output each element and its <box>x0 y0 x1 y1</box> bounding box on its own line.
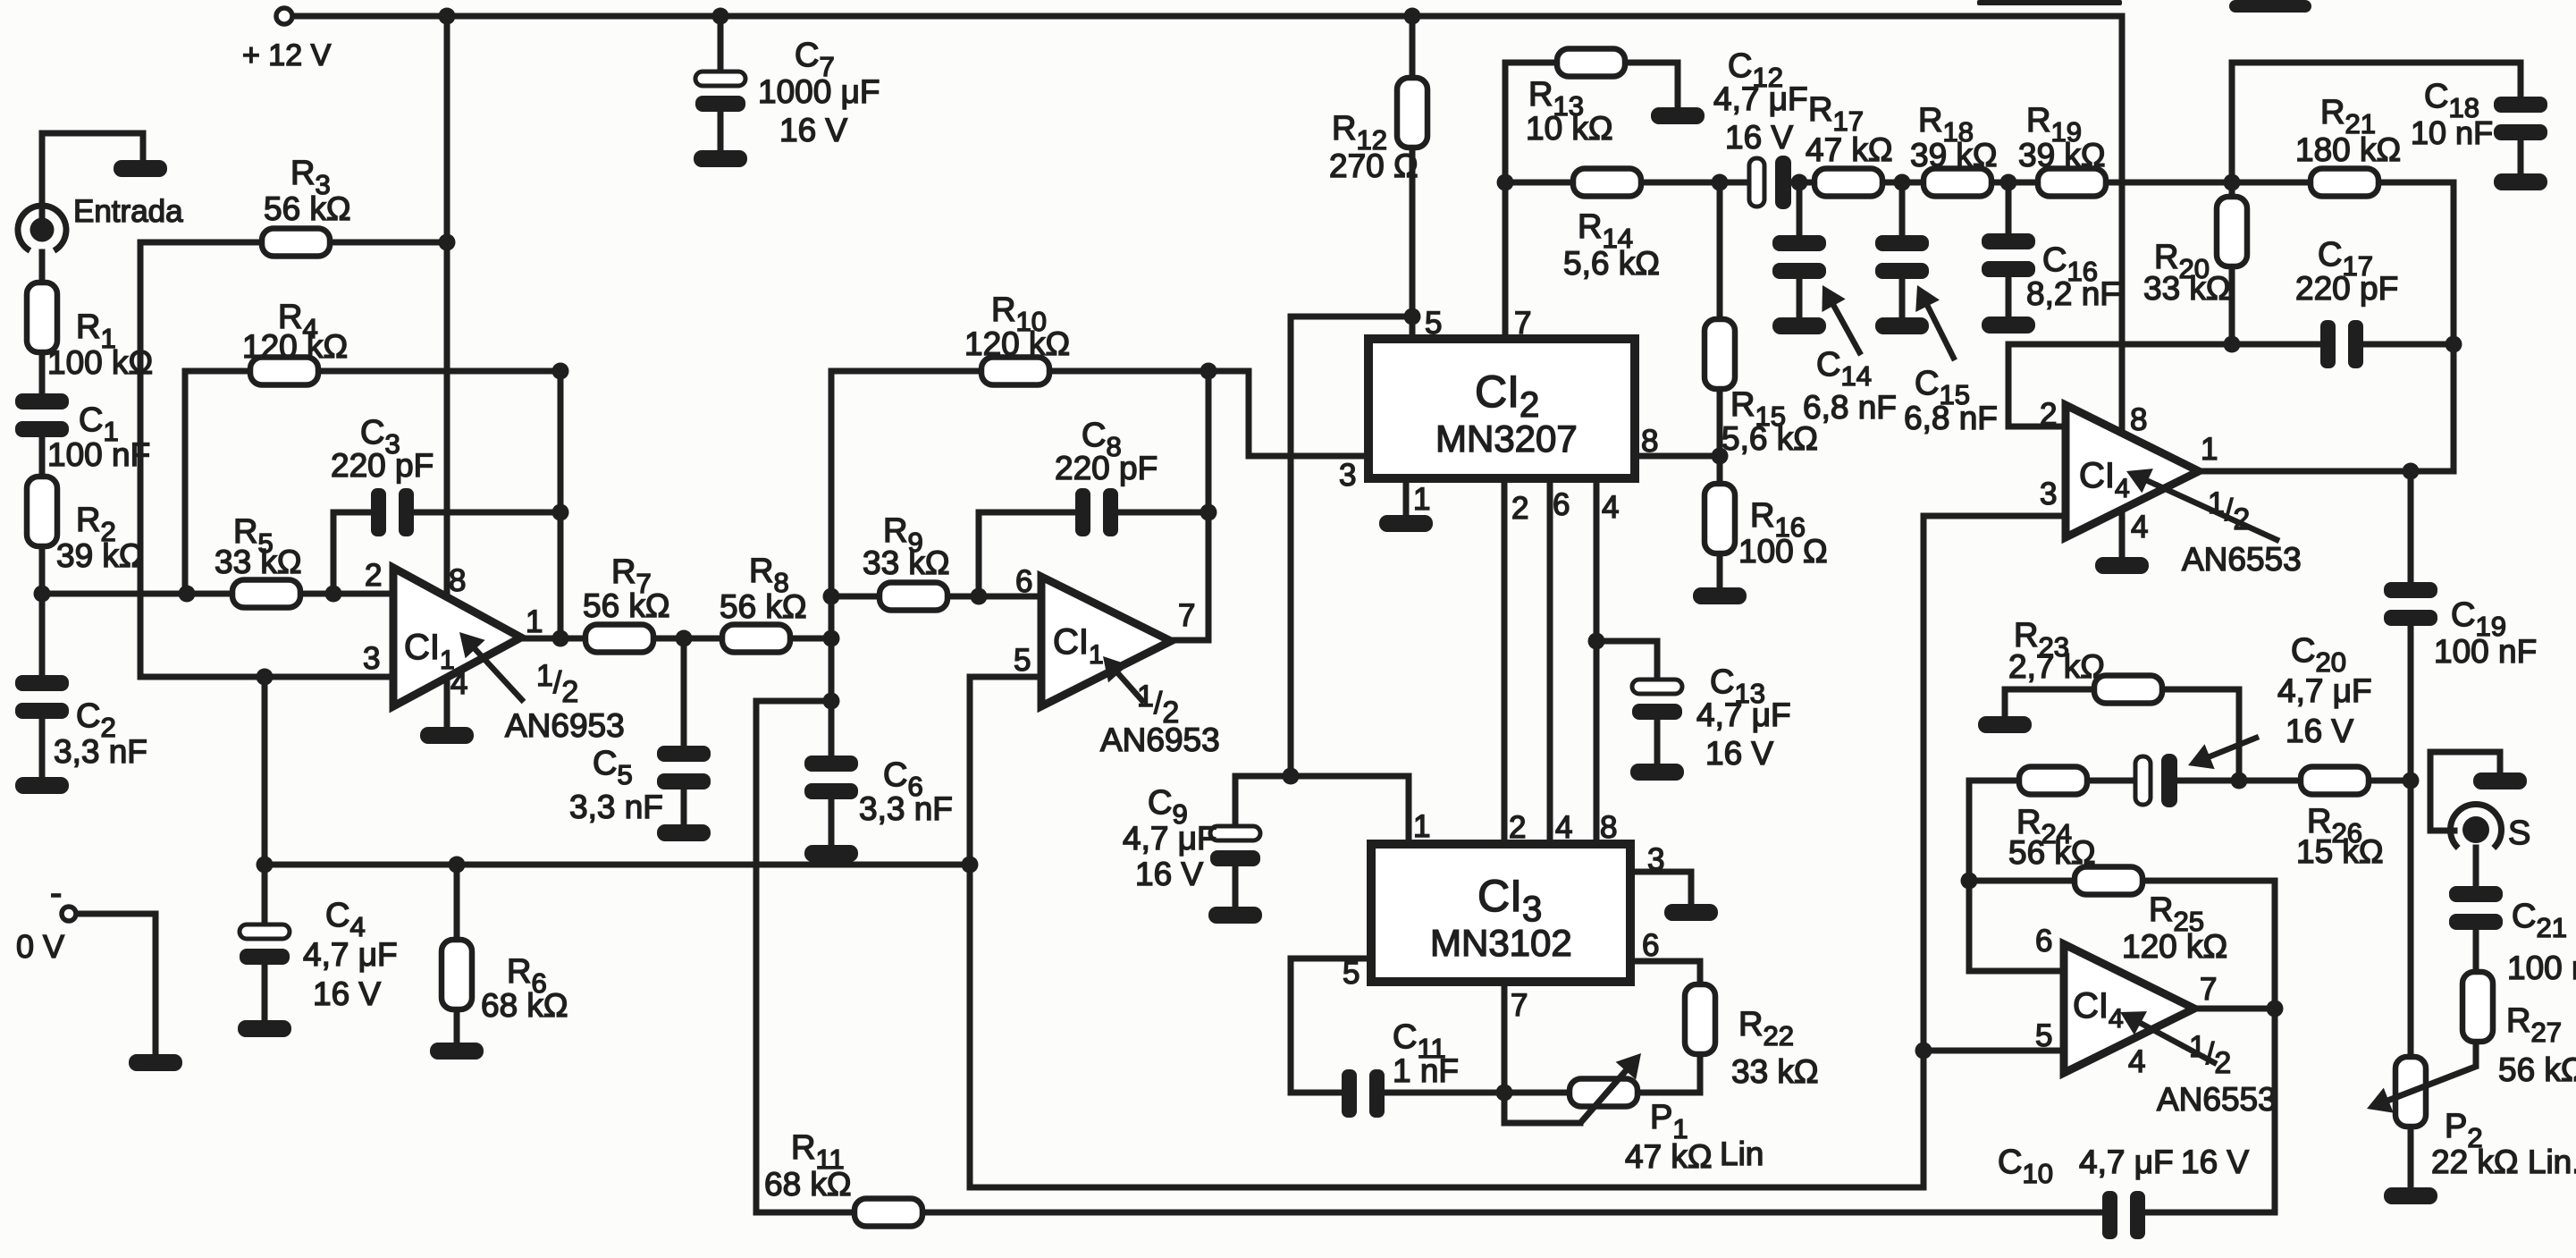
svg-text:22 kΩ Lin.: 22 kΩ Lin. <box>2431 1144 2576 1180</box>
svg-text:39 kΩ: 39 kΩ <box>2018 137 2106 173</box>
svg-text:3: 3 <box>1647 842 1664 877</box>
svg-text:100 nF: 100 nF <box>47 436 150 473</box>
svg-text:4: 4 <box>2128 1044 2145 1079</box>
svg-text:8: 8 <box>449 563 466 598</box>
svg-text:120 kΩ: 120 kΩ <box>242 328 348 365</box>
svg-text:120 kΩ: 120 kΩ <box>964 325 1070 362</box>
svg-text:180 kΩ: 180 kΩ <box>2295 131 2401 168</box>
svg-text:MN3207: MN3207 <box>1435 418 1578 460</box>
svg-text:8: 8 <box>1600 810 1617 845</box>
svg-text:1: 1 <box>1413 482 1430 517</box>
svg-text:39 kΩ: 39 kΩ <box>56 537 144 574</box>
svg-text:1 nF: 1 nF <box>1393 1052 1459 1089</box>
svg-text:47 kΩ: 47 kΩ <box>1806 131 1893 168</box>
svg-text:120 kΩ: 120 kΩ <box>2122 928 2227 965</box>
svg-text:10 nF: 10 nF <box>2411 114 2493 151</box>
svg-text:68 kΩ: 68 kΩ <box>481 987 568 1024</box>
svg-text:1: 1 <box>1413 809 1430 844</box>
svg-text:3: 3 <box>2040 477 2057 511</box>
svg-text:Lin: Lin <box>1720 1136 1764 1172</box>
svg-text:10 kΩ: 10 kΩ <box>1526 110 1613 147</box>
svg-text:56 kΩ: 56 kΩ <box>583 587 670 624</box>
svg-text:15 kΩ: 15 kΩ <box>2296 833 2384 870</box>
svg-text:4: 4 <box>1555 810 1572 845</box>
svg-text:4,7 μF: 4,7 μF <box>2277 672 2372 709</box>
svg-text:220 pF: 220 pF <box>1055 450 1158 486</box>
svg-text:270 Ω: 270 Ω <box>1329 148 1418 184</box>
svg-text:3,3 nF: 3,3 nF <box>569 789 663 825</box>
svg-text:100 nF: 100 nF <box>2434 633 2537 670</box>
svg-text:5: 5 <box>1014 643 1031 678</box>
svg-text:56 kΩ: 56 kΩ <box>2498 1051 2576 1088</box>
svg-text:6: 6 <box>1553 487 1570 522</box>
svg-text:33 kΩ: 33 kΩ <box>1731 1053 1819 1090</box>
svg-text:1: 1 <box>526 604 543 639</box>
svg-text:16 V: 16 V <box>779 112 847 148</box>
svg-text:16 V: 16 V <box>2181 1144 2249 1180</box>
svg-text:47 kΩ: 47 kΩ <box>1625 1138 1713 1175</box>
svg-text:16 V: 16 V <box>1135 856 1203 892</box>
svg-text:8: 8 <box>1641 424 1658 459</box>
svg-text:4,7 μF: 4,7 μF <box>1123 820 1217 857</box>
svg-text:5,6 kΩ: 5,6 kΩ <box>1563 245 1660 282</box>
svg-text:16 V: 16 V <box>1705 735 1773 772</box>
svg-text:3,3 nF: 3,3 nF <box>859 790 953 827</box>
svg-text:6: 6 <box>1015 564 1032 599</box>
svg-text:2: 2 <box>365 558 382 593</box>
svg-text:16 V: 16 V <box>1725 119 1793 156</box>
svg-text:Entrada: Entrada <box>73 194 183 229</box>
svg-text:220 pF: 220 pF <box>331 447 434 484</box>
svg-text:56 kΩ: 56 kΩ <box>2008 834 2096 871</box>
svg-text:39 kΩ: 39 kΩ <box>1910 137 1998 173</box>
svg-text:4,7 μF: 4,7 μF <box>1713 80 1808 117</box>
svg-text:100 nF: 100 nF <box>2507 950 2576 986</box>
svg-text:4: 4 <box>2131 510 2148 545</box>
svg-text:3,3 nF: 3,3 nF <box>54 733 147 770</box>
svg-text:2: 2 <box>2040 397 2057 432</box>
svg-text:7: 7 <box>1511 988 1528 1023</box>
svg-text:33 kΩ: 33 kΩ <box>215 544 302 580</box>
svg-text:6: 6 <box>1642 928 1659 963</box>
svg-text:7: 7 <box>1514 306 1531 341</box>
svg-text:AN6953: AN6953 <box>1100 722 1220 758</box>
svg-text:6: 6 <box>2035 924 2052 958</box>
svg-text:5: 5 <box>1343 956 1360 991</box>
svg-text:1000 μF: 1000 μF <box>758 73 880 110</box>
svg-text:68 kΩ: 68 kΩ <box>764 1166 852 1203</box>
svg-text:0 V: 0 V <box>16 928 64 965</box>
svg-text:5,6 kΩ: 5,6 kΩ <box>1722 420 1818 457</box>
svg-text:1: 1 <box>2201 432 2218 467</box>
svg-text:56 kΩ: 56 kΩ <box>720 588 807 625</box>
svg-text:AN6553: AN6553 <box>2157 1081 2277 1118</box>
svg-text:7: 7 <box>1178 598 1195 633</box>
svg-text:33 kΩ: 33 kΩ <box>2143 270 2231 307</box>
svg-text:AN6553: AN6553 <box>2182 541 2302 578</box>
svg-text:+ 12 V: + 12 V <box>242 38 332 72</box>
svg-text:4: 4 <box>1602 490 1619 525</box>
svg-text:100 Ω: 100 Ω <box>1738 533 1828 570</box>
svg-text:33 kΩ: 33 kΩ <box>863 545 950 581</box>
svg-text:16 V: 16 V <box>2286 713 2353 749</box>
svg-text:2: 2 <box>1511 491 1528 526</box>
svg-text:3: 3 <box>363 641 380 676</box>
svg-text:4,7 μF: 4,7 μF <box>303 936 398 973</box>
svg-text:100 kΩ: 100 kΩ <box>47 344 153 381</box>
svg-text:MN3102: MN3102 <box>1430 922 1572 964</box>
svg-text:S: S <box>2508 815 2530 852</box>
svg-text:56 kΩ: 56 kΩ <box>264 190 351 227</box>
svg-text:4,7 μF: 4,7 μF <box>2079 1144 2174 1180</box>
svg-text:5: 5 <box>2035 1018 2052 1053</box>
svg-text:7: 7 <box>2200 972 2217 1007</box>
svg-text:8,2 nF: 8,2 nF <box>2026 275 2120 312</box>
svg-text:16 V: 16 V <box>313 975 381 1012</box>
svg-text:AN6953: AN6953 <box>505 707 625 744</box>
svg-text:8: 8 <box>2130 402 2147 437</box>
svg-text:-: - <box>50 874 62 913</box>
svg-text:220 pF: 220 pF <box>2295 270 2398 307</box>
svg-text:5: 5 <box>1425 306 1442 341</box>
svg-text:2,7 kΩ: 2,7 kΩ <box>2008 648 2105 685</box>
svg-text:4,7 μF: 4,7 μF <box>1696 697 1791 733</box>
svg-text:6,8 nF: 6,8 nF <box>1904 400 1998 436</box>
svg-text:2: 2 <box>1509 810 1526 845</box>
svg-text:3: 3 <box>1339 458 1356 493</box>
